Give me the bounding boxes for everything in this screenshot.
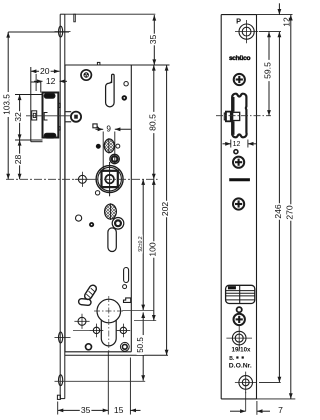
svg-text:100: 100 <box>147 242 157 257</box>
svg-text:246: 246 <box>273 204 283 219</box>
svg-text:270: 270 <box>285 205 295 220</box>
svg-text:50.5: 50.5 <box>136 337 145 353</box>
svg-text:92±0.2: 92±0.2 <box>138 236 144 251</box>
svg-text:59.5: 59.5 <box>263 62 273 79</box>
svg-text:B.: B. <box>229 356 235 362</box>
svg-text:12: 12 <box>233 141 241 148</box>
svg-text:32: 32 <box>13 112 23 122</box>
svg-text:103.5: 103.5 <box>3 94 12 115</box>
svg-text:35: 35 <box>81 405 91 415</box>
svg-text:D.O.Nr.: D.O.Nr. <box>229 363 252 370</box>
svg-text:9: 9 <box>106 125 111 134</box>
svg-text:20: 20 <box>40 66 50 76</box>
svg-text:35: 35 <box>148 35 158 45</box>
svg-text:12: 12 <box>46 76 56 86</box>
svg-text:202: 202 <box>160 202 170 217</box>
svg-text:15: 15 <box>114 405 124 415</box>
svg-text:80.5: 80.5 <box>147 114 157 131</box>
svg-text:19/10x: 19/10x <box>232 346 251 353</box>
svg-text:7: 7 <box>278 405 283 415</box>
svg-text:schüco: schüco <box>229 55 251 62</box>
svg-text:28: 28 <box>13 155 23 165</box>
svg-text:P: P <box>236 16 241 25</box>
